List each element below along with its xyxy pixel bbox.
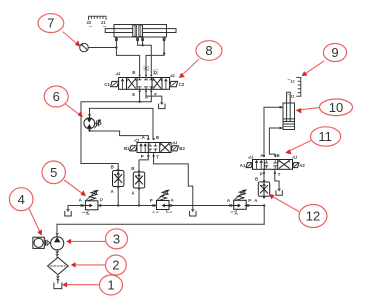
wire valve V3 B to cylinder A2 lower port xyxy=(269,128,283,156)
hydraulic motor M1 xyxy=(84,115,101,132)
pump P1 (item 3) xyxy=(51,234,64,250)
svg-text:10: 10 xyxy=(329,100,343,115)
cylinder A1 port stubs and dots xyxy=(115,37,165,41)
distance ruler S1 (labels 22 / 21) xyxy=(87,16,107,26)
tank T4 xyxy=(276,189,282,196)
svg-text:P: P xyxy=(141,154,144,159)
svg-text:B: B xyxy=(277,153,280,158)
tank T2 xyxy=(190,209,196,216)
solenoid actuator A2 xyxy=(293,156,299,168)
svg-text:B: B xyxy=(255,176,258,181)
tank T5 (item 1) xyxy=(54,283,62,289)
wire valve V2 P to throttle box2 xyxy=(139,153,148,171)
callout circle 9 xyxy=(323,44,346,62)
wire pump to filter xyxy=(56,250,58,258)
valve V1 port dots xyxy=(139,75,153,93)
svg-text:B2: B2 xyxy=(179,146,185,151)
wire box1 to rail R1 xyxy=(117,187,119,206)
wire cylinder port4 to valve V1 port C xyxy=(146,40,164,75)
cylinder A1 (double rod, ports 116/137.6/142.6/164) xyxy=(105,25,176,38)
svg-text:B: B xyxy=(131,166,134,171)
svg-text:12: 12 xyxy=(290,79,295,84)
hydraulic motor M1 wires xyxy=(90,108,154,138)
label port D (boxed) xyxy=(153,70,158,75)
wire valve V1 port A to tank xyxy=(146,89,162,104)
svg-text:22: 22 xyxy=(87,20,92,25)
valve V3 port dots xyxy=(263,155,276,174)
distance ruler S2 (labels 12 / 11) xyxy=(288,78,301,99)
throttle valve box2 xyxy=(133,172,144,188)
valve V2 (B1/B2 4/3-way) xyxy=(137,143,171,153)
node port4 bend dot xyxy=(163,52,165,54)
electric motor EM1 (item 4) xyxy=(33,237,50,248)
svg-text:4: 4 xyxy=(18,192,25,207)
svg-text:B: B xyxy=(156,135,159,140)
wire valve V1 ports E+F to left rail xyxy=(81,89,151,170)
callout circle 8 xyxy=(196,41,222,61)
svg-text:C2: C2 xyxy=(179,82,185,87)
throttle valve box1 xyxy=(113,171,124,187)
tank T3 xyxy=(65,209,71,216)
svg-text:E: E xyxy=(132,92,135,97)
rail R1 (regulated line y=205.5) xyxy=(68,206,264,225)
svg-text:12: 12 xyxy=(306,209,320,224)
solenoid actuator A1 xyxy=(246,156,253,168)
pressure relief valve RV2 (mirrored) xyxy=(153,190,172,212)
callout circle 1 xyxy=(100,275,123,295)
rail R2 (pump pressure line y=224.2) xyxy=(57,224,264,236)
solenoid actuator B1 xyxy=(130,139,139,151)
rail R1 port chevrons xyxy=(83,204,248,206)
filter F1 (item 2) xyxy=(48,257,69,274)
cylinder A2 inlet arrows xyxy=(280,106,283,129)
svg-text:P: P xyxy=(248,198,251,203)
svg-text:21: 21 xyxy=(101,20,106,25)
svg-text:C1: C1 xyxy=(104,82,110,87)
pressure relief valve RV3 xyxy=(231,190,246,214)
svg-text:A1: A1 xyxy=(240,163,246,168)
rail R1 junction dots xyxy=(80,204,265,206)
svg-text:8: 8 xyxy=(205,43,212,58)
svg-text:P: P xyxy=(150,198,153,203)
box2 port dots xyxy=(138,170,140,190)
tank T1 (valve V1 port A) xyxy=(159,103,165,109)
wire gauge to node xyxy=(88,47,116,49)
svg-text:6: 6 xyxy=(53,89,60,104)
svg-text:A2: A2 xyxy=(299,163,305,168)
svg-text:B: B xyxy=(132,70,135,75)
wire cylinder ports 2+3 to valve V1 port D xyxy=(138,40,152,75)
wire box2 to rail R1 xyxy=(138,188,140,206)
callout circle 12 xyxy=(299,205,327,228)
node E junction xyxy=(138,101,140,103)
solenoid actuator C1 (parallelogram) xyxy=(111,73,120,87)
svg-text:9: 9 xyxy=(331,45,338,60)
box1 port dots xyxy=(117,169,119,189)
callout circle 6 xyxy=(44,86,68,107)
callout circle 5 xyxy=(42,161,65,184)
svg-text:7: 7 xyxy=(47,16,54,31)
node ports 2+3 junction xyxy=(141,44,143,46)
box12 port dots xyxy=(263,180,265,199)
valve V2 port dots xyxy=(147,138,155,157)
pressure relief valve RV1 xyxy=(83,190,98,214)
callout arrowheads xyxy=(37,40,308,287)
svg-text:B1: B1 xyxy=(124,146,130,151)
wire relief RV1 drain to tank T3 xyxy=(67,206,69,212)
label port C (boxed) xyxy=(144,66,149,71)
wire valve V2 T to tank T2 xyxy=(154,153,193,212)
wire valve V3 P to box12 xyxy=(263,169,265,182)
wire filter to tank T5 xyxy=(57,275,59,283)
solenoid actuator C2 (parallelogram) xyxy=(170,74,178,86)
svg-text:5: 5 xyxy=(50,165,57,180)
svg-text:1: 1 xyxy=(107,278,114,293)
valve V3 (A1/A2 4/3-way) xyxy=(253,160,293,170)
wire valve V3 T to tank T4 xyxy=(275,169,279,191)
cylinder A2 (vertical, item 10) xyxy=(283,92,295,129)
svg-text:2: 2 xyxy=(112,258,119,273)
svg-text:D: D xyxy=(154,70,157,75)
node gauge junction xyxy=(115,46,117,48)
valve V1 (6-port 3-position, C1/C2) xyxy=(119,78,170,90)
wire cylinder port1 to valve V1 port B xyxy=(116,40,139,75)
svg-text:T: T xyxy=(156,155,159,160)
tank flow arrows xyxy=(57,276,59,280)
suction flow arrows xyxy=(56,252,58,256)
svg-text:T: T xyxy=(278,172,281,177)
throttle valve box12 xyxy=(258,182,269,196)
callout leader lines xyxy=(29,32,324,285)
svg-text:P: P xyxy=(100,197,103,202)
svg-text:B: B xyxy=(111,165,114,170)
callout circle 10 xyxy=(320,99,353,116)
callout circle 11 xyxy=(311,127,341,146)
svg-text:3: 3 xyxy=(113,231,120,246)
pressure gauge G1 xyxy=(80,43,89,52)
wire valve V3 A to cylinder A2 upper port xyxy=(264,107,283,156)
svg-text:11: 11 xyxy=(318,129,332,144)
callout circle 3 xyxy=(106,229,128,249)
solenoid actuator B2 xyxy=(171,142,178,151)
callout circle 7 xyxy=(38,14,64,33)
callout circle 4 xyxy=(9,188,33,211)
svg-text:P: P xyxy=(260,171,263,176)
callout circle 2 xyxy=(106,255,127,275)
